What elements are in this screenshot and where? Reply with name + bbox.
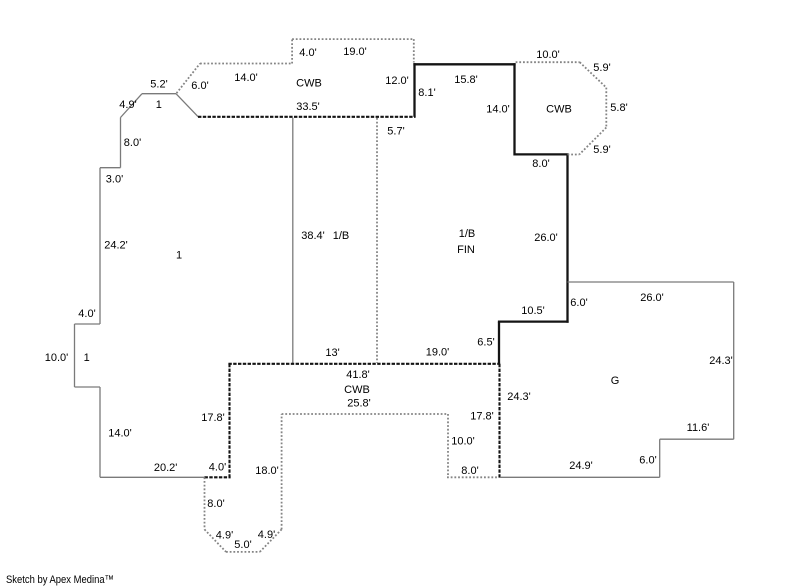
wire cwb right 5.8 dotted vertical: [605, 88, 607, 128]
svg-text:18.0': 18.0': [255, 465, 279, 477]
svg-text:20.2': 20.2': [154, 462, 178, 474]
svg-text:4.9': 4.9': [216, 530, 233, 542]
wire bold dashed 41.8 line: [228, 363, 500, 365]
wire house1 4.0 step: [75, 323, 101, 325]
svg-text:8.0': 8.0': [207, 498, 224, 510]
wire house1 step at y387: [75, 386, 101, 388]
svg-text:26.0': 26.0': [534, 232, 558, 244]
svg-text:19.0': 19.0': [426, 347, 450, 359]
wire house1 10.0 left vertical: [74, 324, 76, 387]
svg-text:1: 1: [84, 352, 90, 364]
svg-text:24.9': 24.9': [569, 460, 593, 472]
svg-text:38.4': 38.4': [301, 230, 325, 242]
svg-text:6.0': 6.0': [191, 80, 208, 92]
svg-text:CWB: CWB: [344, 384, 370, 396]
wire stoop 5.0 dotted bottom: [226, 551, 260, 553]
svg-text:8.1': 8.1': [418, 87, 435, 99]
wire house1 8.0 left vertical: [120, 118, 122, 168]
wire stoop 4.9 dotted diagonal left: [205, 529, 227, 552]
wire cwb right dotted bottom stub: [568, 154, 580, 156]
svg-text:26.0': 26.0': [640, 292, 664, 304]
wire cwb bottom 25.8 dotted: [282, 413, 448, 415]
wire garage right 24.3: [733, 282, 735, 439]
wire cwb right 10.0 dotted top: [516, 61, 580, 63]
wire bold 14.0 vertical: [513, 63, 515, 155]
svg-text:4.0': 4.0': [78, 308, 95, 320]
wire bold 6.5 vertical: [498, 322, 500, 364]
wire cwb bottom 8.0 dotted: [447, 476, 499, 478]
wire interior dotted divider 38.4: [376, 118, 378, 363]
wire bold 26.0 vertical: [566, 154, 568, 322]
svg-text:4.9': 4.9': [258, 529, 275, 541]
wire bold dashed 17.8 left vertical: [228, 364, 230, 479]
svg-text:14.0': 14.0': [234, 72, 258, 84]
svg-text:CWB: CWB: [296, 78, 322, 90]
svg-text:8.0': 8.0': [124, 137, 141, 149]
svg-text:14.0': 14.0': [486, 104, 510, 116]
svg-text:24.3': 24.3': [709, 355, 733, 367]
wire bold dashed 4.0 bottom: [205, 476, 231, 478]
wire porch 6.0 dotted diagonal: [177, 64, 201, 94]
wire cwb right 5.9 dotted diagonal lower: [579, 128, 606, 155]
svg-text:4.0': 4.0': [299, 47, 316, 59]
svg-text:5.9': 5.9': [593, 62, 610, 74]
wire garage bottom 24.9: [500, 476, 660, 478]
wire house1 20.2 bottom: [100, 476, 205, 478]
svg-text:10.0': 10.0': [451, 436, 475, 448]
wire house1 top right diagonal: [176, 94, 198, 117]
svg-text:17.8': 17.8': [470, 411, 494, 423]
svg-text:10.0': 10.0': [45, 352, 69, 364]
svg-text:8.0': 8.0': [461, 465, 478, 477]
wire house1 left wall 3.0+24.2: [99, 168, 101, 324]
wire porch 4.0 dotted step: [291, 39, 293, 63]
svg-text:4.9': 4.9': [119, 99, 136, 111]
svg-text:6.0': 6.0': [639, 455, 656, 467]
wire cwb bottom 10.0 dotted vertical: [447, 414, 449, 477]
wire bold 15.8 top: [413, 63, 515, 65]
wire garage top 26.0: [568, 281, 734, 283]
wire house1 4.9 diagonal: [121, 94, 143, 118]
wire house1 step at y166: [100, 167, 121, 169]
svg-text:FIN: FIN: [457, 244, 475, 256]
svg-text:1: 1: [176, 250, 182, 262]
svg-text:12.0': 12.0': [385, 75, 409, 87]
svg-text:3.0': 3.0': [106, 174, 123, 186]
wire garage 11.6 horizontal: [660, 438, 734, 440]
svg-text:5.8': 5.8': [610, 102, 627, 114]
wire stoop left dotted vertical: [204, 477, 206, 529]
wire garage 6.0 notch vertical: [659, 439, 661, 477]
svg-text:5.0': 5.0': [234, 539, 251, 551]
svg-text:4.0': 4.0': [209, 462, 226, 474]
wire bold dashed 33.5 line: [198, 116, 416, 118]
svg-text:6.0': 6.0': [570, 297, 587, 309]
svg-text:33.5': 33.5': [296, 101, 320, 113]
wire bold 8.0 horizontal: [515, 153, 569, 155]
svg-text:24.2': 24.2': [104, 240, 128, 252]
wire bold 8.1 vertical: [413, 63, 415, 117]
wire porch 14.0 dotted top: [200, 63, 292, 65]
svg-text:25.8': 25.8': [347, 398, 371, 410]
svg-text:5.7': 5.7': [387, 126, 404, 138]
svg-text:14.0': 14.0': [108, 428, 132, 440]
wire house1 top 5.2 segment: [142, 93, 176, 95]
wire house1 right wall 38.4: [292, 118, 294, 364]
wire bold dashed 17.8 right vertical: [498, 364, 500, 479]
svg-text:10.0': 10.0': [536, 49, 560, 61]
wire porch 12.0 dotted right: [413, 39, 415, 62]
svg-text:41.8': 41.8': [346, 369, 370, 381]
wire bold 10.5 horizontal: [498, 320, 569, 322]
svg-text:13': 13': [325, 347, 339, 359]
svg-text:1: 1: [156, 99, 162, 111]
wire porch 19.0 dotted top: [292, 38, 414, 40]
svg-text:17.8': 17.8': [201, 412, 225, 424]
svg-text:Sketch by Apex Medina™: Sketch by Apex Medina™: [6, 574, 114, 586]
svg-text:15.8': 15.8': [454, 74, 478, 86]
wire stoop 4.9 dotted diagonal right: [260, 529, 282, 552]
svg-text:19.0': 19.0': [343, 46, 367, 58]
wire cwb right 5.9 dotted diagonal upper: [580, 62, 607, 87]
svg-text:10.5': 10.5': [521, 305, 545, 317]
svg-text:1/B: 1/B: [459, 228, 476, 240]
svg-text:G: G: [611, 375, 620, 387]
svg-text:8.0': 8.0': [532, 158, 549, 170]
wire house1 14.0 lower left vertical: [99, 387, 101, 477]
svg-text:24.3': 24.3': [507, 391, 531, 403]
svg-text:5.2': 5.2': [150, 79, 167, 91]
svg-text:1/B: 1/B: [333, 230, 350, 242]
wire stoop 18.0 dotted vertical: [281, 414, 283, 529]
svg-text:5.9': 5.9': [593, 144, 610, 156]
svg-text:6.5': 6.5': [477, 337, 494, 349]
svg-text:11.6': 11.6': [687, 422, 710, 434]
svg-text:CWB: CWB: [546, 104, 572, 116]
